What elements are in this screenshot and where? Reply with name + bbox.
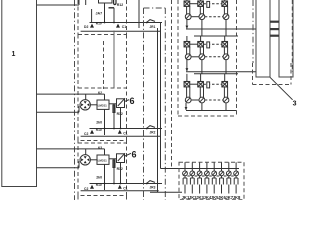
wire	[120, 163, 122, 184]
diode C2	[90, 185, 94, 189]
wire (thick)	[109, 7, 115, 9]
capacitor U glyph	[114, 0, 116, 5]
wire bus vertical	[160, 23, 162, 169]
boundary dashed line	[171, 0, 173, 168]
svg-text:R12: R12	[117, 3, 123, 7]
resistor R33	[207, 82, 210, 88]
node rail B2	[81, 135, 161, 137]
svg-text:R10: R10	[96, 128, 102, 132]
relay contact JR1	[146, 20, 155, 24]
wire drops	[202, 103, 226, 111]
transistor Q22	[199, 47, 205, 60]
svg-text:R12: R12	[117, 112, 123, 116]
wire	[104, 164, 106, 190]
node bus 1a	[186, 28, 257, 30]
svg-text:JR1: JR1	[150, 25, 156, 29]
wire stub	[91, 9, 93, 23]
wire	[113, 159, 115, 184]
relay contact JR2	[146, 126, 155, 130]
transistor Q33	[223, 87, 229, 103]
dashed sub-box	[253, 63, 292, 85]
relay K11	[184, 1, 190, 6]
wire to next row	[187, 36, 225, 42]
wire (dashed)	[203, 3, 222, 5]
transistor Q31	[185, 87, 191, 103]
wire link	[191, 16, 199, 18]
svg-text:C1: C1	[123, 132, 127, 136]
node rail A1	[90, 22, 163, 24]
wire links	[187, 175, 233, 177]
node rail B1	[81, 30, 161, 32]
wire	[120, 108, 122, 129]
relay contact JR3	[146, 181, 155, 185]
svg-text:3: 3	[293, 101, 297, 108]
svg-text:JA7: JA7	[96, 12, 103, 16]
driver block 2 dashed box	[178, 0, 237, 116]
wire link	[191, 99, 199, 101]
trimmer RP2	[117, 98, 126, 107]
relay K33	[222, 82, 228, 87]
thyristor V4	[205, 169, 210, 179]
node rail B3	[81, 190, 159, 192]
boundary dash-dot line (left of channel column)	[74, 0, 76, 200]
terminal fork 1	[183, 178, 187, 194]
node bus 2b	[194, 73, 238, 75]
resistor R12	[113, 105, 115, 113]
wire (dashed)	[205, 16, 223, 18]
svg-text:6: 6	[132, 150, 137, 160]
thyristor V1	[183, 169, 188, 179]
thyristor V8	[234, 169, 239, 179]
callout 6	[125, 150, 137, 160]
svg-text:D2: D2	[84, 25, 88, 29]
wire	[109, 158, 117, 160]
wire (dashed)	[203, 43, 222, 45]
wire from block 1	[37, 94, 105, 100]
diode C1	[118, 130, 122, 134]
terminal fork 4	[205, 178, 209, 194]
wire bus vertical	[157, 28, 159, 192]
wire drops	[202, 20, 226, 36]
leader line to 3	[270, 77, 293, 100]
block 1 (power supply box)	[2, 0, 37, 187]
svg-text:K3: K3	[98, 146, 102, 150]
node rail A3	[90, 183, 163, 185]
transistor Q13	[223, 6, 229, 19]
diode C1	[118, 185, 122, 189]
diode C1	[116, 24, 120, 28]
wire (dashed)	[205, 56, 223, 58]
svg-text:JR2: JR2	[150, 130, 156, 134]
channel 1 dashed box (partial, top)	[78, 0, 127, 35]
diode D2	[90, 24, 94, 28]
svg-text:2k0: 2k0	[96, 121, 102, 125]
indicator column rect A	[256, 0, 270, 77]
thyristor V3	[197, 169, 202, 179]
svg-text:1: 1	[12, 51, 16, 58]
output bus stubs	[185, 162, 236, 168]
node rail A2	[90, 128, 163, 130]
wire	[104, 109, 106, 135]
wire arrow to bus	[186, 60, 189, 72]
svg-text:K2: K2	[98, 91, 102, 95]
terminal fork 8	[234, 178, 238, 194]
wire	[150, 191, 182, 193]
thyristor V2	[190, 169, 195, 179]
terminal fork 6	[220, 178, 224, 194]
wire	[90, 104, 97, 106]
wire arrow to bus	[186, 20, 189, 29]
junction dots	[104, 22, 122, 185]
transistor Q21	[185, 47, 191, 60]
terminal fork 5	[212, 178, 216, 194]
relay K32	[198, 82, 204, 87]
relay K21	[184, 42, 190, 47]
svg-text:6: 6	[130, 96, 135, 106]
relay K31	[184, 82, 190, 87]
resistor R12	[113, 160, 115, 168]
terminal fork 7	[227, 178, 231, 194]
svg-text:C1: C1	[122, 25, 126, 29]
transistor Q12	[199, 6, 205, 19]
node bus 2a	[186, 71, 257, 73]
wire	[190, 3, 198, 5]
wire x114 gap	[113, 31, 115, 89]
relay K13	[222, 1, 228, 6]
dashed verticals in gaps	[78, 35, 127, 201]
comparator U3 (LM311)	[97, 155, 109, 164]
svg-text:R12: R12	[117, 167, 123, 171]
wire from block 1	[37, 161, 80, 168]
thyristor V5	[212, 169, 217, 179]
diode C2	[90, 130, 94, 134]
wire link	[191, 56, 199, 58]
wire	[90, 159, 97, 161]
trimmer RP3	[117, 153, 126, 162]
transistor Q11	[185, 6, 191, 19]
opto bridge B2	[80, 100, 90, 110]
wire (vertical riser x139)	[138, 0, 140, 28]
transistor Q23	[223, 47, 229, 60]
connector bars	[270, 21, 279, 37]
terminal fork 2	[190, 178, 194, 194]
svg-text:LM311: LM311	[98, 104, 108, 108]
channel 3 dashed box	[78, 143, 127, 196]
svg-text:JR3: JR3	[150, 185, 156, 189]
svg-text:LM311: LM311	[98, 159, 108, 163]
resistor R23	[207, 42, 210, 48]
dash-dot boundary	[252, 0, 254, 63]
resistor R13	[207, 1, 210, 7]
indicator column rect B	[279, 0, 293, 77]
svg-text:R10: R10	[96, 183, 102, 187]
svg-text:R10: R10	[96, 21, 102, 25]
wire	[113, 8, 115, 23]
wire from block 1 top	[37, 0, 86, 5]
svg-text:C2: C2	[84, 132, 88, 136]
relay K23	[222, 42, 228, 47]
wire from block 1	[37, 106, 80, 112]
wire	[190, 83, 198, 85]
node bus 1b	[194, 35, 238, 37]
wire stubs to top edge	[187, 0, 225, 1]
wire	[104, 3, 106, 23]
thyristor V7	[226, 169, 231, 179]
wire drops	[202, 60, 226, 74]
wire arrow to bus	[185, 103, 188, 110]
callout 6	[125, 96, 135, 106]
svg-text:2k0: 2k0	[96, 176, 102, 180]
dashed boundary right	[291, 0, 293, 72]
channel 2 dashed box	[78, 88, 127, 141]
wire to next row	[187, 74, 225, 82]
wire bus horizontal	[161, 168, 240, 170]
svg-text:C1: C1	[123, 187, 127, 191]
opto bridge B3	[80, 155, 90, 165]
wire (dashed)	[205, 99, 223, 101]
op-amp U1 box bottom (cut off at top)	[99, 0, 113, 3]
terminal fork 3	[198, 178, 202, 194]
wire	[113, 104, 115, 129]
output box 4 dashed	[179, 162, 244, 199]
relay K22	[198, 42, 204, 47]
node bus 3a	[186, 110, 237, 112]
relay K12	[198, 1, 204, 6]
thyristor V6	[219, 169, 224, 179]
relay box 7 dash-dot frame	[144, 8, 166, 200]
wire	[109, 103, 117, 105]
wire from block 1	[37, 149, 105, 155]
transistor Q32	[199, 87, 205, 103]
wire (dashed)	[203, 83, 222, 85]
wire	[190, 43, 198, 45]
comparator U2 (LM311)	[97, 100, 109, 109]
